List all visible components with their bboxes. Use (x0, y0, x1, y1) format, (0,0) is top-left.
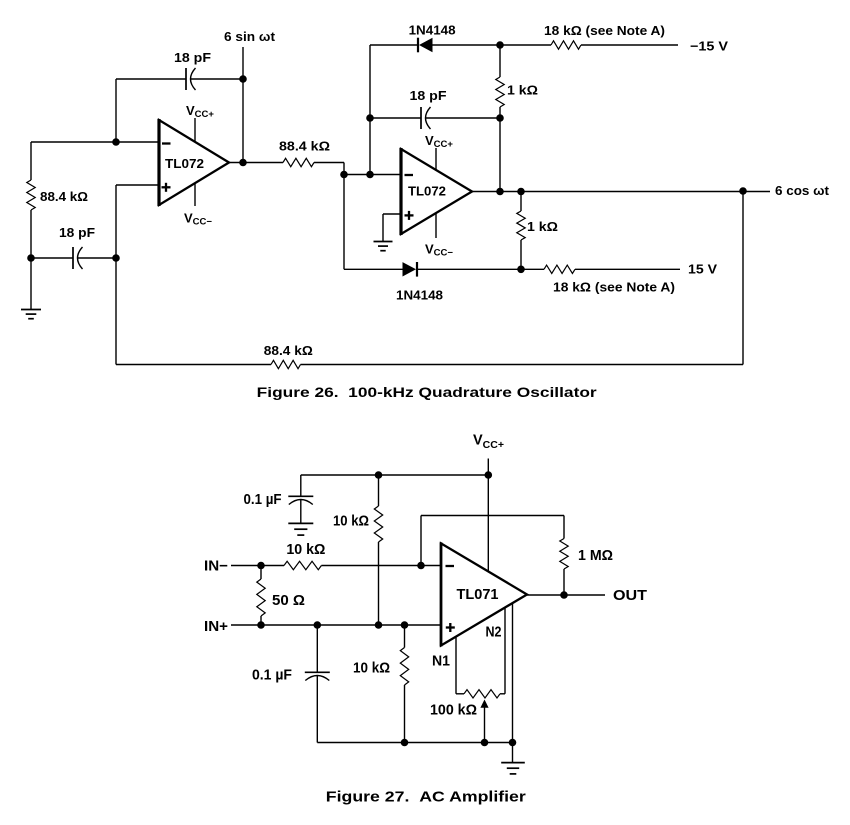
wire: ground lead (30, 258, 32, 310)
wire: noninverting input vertical (115, 185, 117, 365)
wire: R5 lower lead (520, 240, 522, 269)
svg-text:15 V: 15 V (688, 262, 717, 277)
label R8 10 kOhm (333, 514, 369, 530)
node: U2 inverting junction A (340, 171, 348, 179)
node: rail/ground junction (509, 739, 517, 747)
svg-text:18 pF: 18 pF (174, 50, 211, 65)
wire: R13 top lead (404, 625, 406, 648)
wire: feedback top (421, 515, 564, 517)
wire: R11 top lead (563, 516, 565, 539)
caption Figure 27 (326, 789, 526, 806)
wire: R9 to U3 inverting input (321, 565, 441, 567)
svg-text:−15 V: −15 V (690, 39, 728, 54)
capacitor C4 0.1 uF (288, 496, 313, 504)
resistor R5 1 kOhm (517, 211, 525, 240)
diode D2 1N4148 (403, 262, 418, 277)
wire: N1 pin (455, 637, 457, 694)
resistor R6 18 kOhm (544, 265, 575, 273)
svg-text:6 sin ωt: 6 sin ωt (224, 29, 276, 44)
label IN+ (204, 619, 228, 635)
svg-text:VCC−: VCC− (184, 211, 212, 228)
U1 VCC+ pin (194, 118, 196, 142)
node: rail/R13 junction (401, 739, 409, 747)
wire: R3 to -15 V (581, 44, 678, 46)
wire: C1 to top junction (191, 78, 243, 80)
svg-text:10 kΩ: 10 kΩ (286, 542, 325, 558)
wire: R5 upper lead (520, 192, 522, 212)
wire: U2 plus ground lead (382, 214, 384, 242)
wire: IN+ row (231, 624, 441, 626)
label R2 88.4 kOhm (279, 139, 330, 154)
wire: R4 lower lead (499, 107, 501, 192)
U1 minus sign (162, 142, 171, 144)
wire: R1 bottom lead (30, 210, 32, 258)
wire: R10 top lead (260, 566, 262, 580)
label R10 50 Ohm (272, 593, 305, 609)
label VCC+ supply (473, 433, 504, 452)
node: top row junction (496, 41, 504, 49)
wire: pot right lead (500, 693, 505, 695)
wire: D1 to node (433, 44, 552, 46)
label U2 VCC- (425, 242, 453, 259)
svg-text:18 kΩ (see Note A): 18 kΩ (see Note A) (544, 23, 665, 38)
label U1 VCC+ (186, 103, 214, 120)
label U3 N2 (486, 625, 502, 641)
wire: bottom diode row left (344, 268, 403, 270)
resistor R8 10 kOhm (374, 506, 382, 542)
label R5 1 kOhm (527, 219, 558, 234)
node: cap row left junction (366, 114, 374, 122)
label 6 cos wt (775, 183, 830, 198)
label -15 V (690, 39, 728, 54)
wire: N2 pin (504, 608, 506, 694)
label C4 0.1 uF (244, 492, 282, 508)
node: rail/R8 junction (375, 471, 383, 479)
svg-text:VCC−: VCC− (425, 242, 453, 259)
svg-text:10 kΩ: 10 kΩ (353, 661, 390, 677)
wire: U2 noninverting input (383, 213, 401, 215)
label D1 1N4148 (409, 23, 456, 38)
node: IN+/R8 junction (375, 621, 383, 629)
svg-text:50 Ω: 50 Ω (272, 593, 305, 609)
svg-text:18 pF: 18 pF (59, 225, 95, 240)
wire: top row left segment (370, 44, 418, 46)
ground G1 (21, 310, 41, 319)
node: cap row right junction (496, 114, 504, 122)
node: U1 inverting input junction (112, 138, 120, 146)
wire: R2 to U2 branch (314, 162, 344, 164)
resistor R9 10 kOhm (284, 561, 321, 569)
node: rail/wiper junction (481, 739, 489, 747)
caption Figure 26 (257, 385, 598, 400)
wire: R11 bottom lead (563, 569, 565, 595)
wire: C4 top lead (300, 475, 302, 496)
svg-text:18 pF: 18 pF (410, 88, 447, 103)
resistor R4 1 kOhm (496, 77, 504, 107)
wire: bottom feedback left (116, 364, 271, 366)
wire: U2 inverting input (344, 174, 401, 176)
svg-text:OUT: OUT (613, 588, 647, 604)
wire: bottom rail (317, 742, 512, 744)
wire: feedback up (420, 516, 422, 566)
wire: cap row right segment (426, 117, 500, 119)
wire: IN- lead (231, 565, 284, 567)
svg-text:IN−: IN− (204, 558, 228, 574)
U2 VCC+ pin (435, 148, 437, 171)
diode D1 1N4148 (418, 38, 433, 53)
U3 plus sign (446, 623, 455, 632)
label D2 1N4148 (396, 288, 443, 303)
wire: VCC+ rail (301, 474, 489, 476)
label U2 VCC+ (425, 133, 453, 150)
label R1 88.4 kOhm (40, 189, 88, 204)
wiper arrow (480, 700, 488, 743)
node: 6 cos wt junction (739, 187, 747, 195)
svg-text:TL072: TL072 (165, 156, 204, 171)
U1 plus sign (162, 183, 171, 192)
wire: top feedback left segment (116, 78, 186, 80)
node: output/R11 junction (560, 591, 568, 599)
label R6 18 kOhm (see Note A) (553, 280, 675, 295)
wire: pot left lead (456, 693, 464, 695)
wire: cap row left segment (370, 117, 421, 119)
svg-text:1 kΩ: 1 kΩ (527, 219, 558, 234)
U2 minus sign (405, 174, 414, 176)
label 15 V (688, 262, 717, 277)
label R4 1 kOhm (507, 83, 538, 98)
node: U2 output junction (496, 188, 504, 196)
svg-text:VCC+: VCC+ (186, 103, 214, 120)
capacitor C1 18 pF (186, 68, 196, 90)
node: VCC rail junction (485, 471, 493, 479)
svg-text:1 kΩ: 1 kΩ (507, 83, 538, 98)
wire: C5 bottom lead (316, 676, 318, 743)
svg-text:N2: N2 (486, 625, 502, 641)
resistor R2 88.4 kOhm (283, 158, 314, 166)
wire: R8 bottom lead (378, 542, 380, 625)
wire: C2 left lead (31, 257, 73, 259)
U2 plus sign (405, 211, 414, 220)
label R9 10 kOhm (286, 542, 325, 558)
svg-text:6 cos ωt: 6 cos ωt (775, 183, 830, 198)
label R3 18 kOhm (see Note A) (544, 23, 665, 38)
node: IN+/R12 junction (401, 621, 409, 629)
svg-text:Figure 26. 100-kHz Quadrature: Figure 26. 100-kHz Quadrature Oscillator (257, 385, 598, 400)
wire: U1 output (229, 162, 283, 164)
resistor R1 88.4 kOhm (27, 180, 35, 210)
wire: R1 top lead (30, 142, 32, 180)
label U3 TL071 (457, 587, 499, 603)
op-amp U3 TL071 (441, 542, 527, 646)
ground G3 (288, 523, 313, 535)
node: R1/C2 junction (27, 254, 35, 262)
wire: branch down to diode row (343, 163, 345, 270)
svg-text:1 MΩ: 1 MΩ (578, 548, 613, 564)
op-amp U2 TL072 (401, 148, 472, 235)
label C3 18 pF (410, 88, 447, 103)
svg-text:88.4 kΩ: 88.4 kΩ (279, 139, 330, 154)
svg-text:TL071: TL071 (457, 587, 499, 603)
wire: left vertical to diode/cap row (369, 45, 371, 175)
node: U2 inverting junction B (366, 171, 374, 179)
wire: R4 upper lead (499, 45, 501, 77)
svg-text:10 kΩ: 10 kΩ (333, 514, 369, 530)
wire: U3 output (527, 594, 605, 596)
svg-text:TL072: TL072 (408, 184, 446, 199)
label U2 TL072 (408, 184, 446, 199)
wire: R13 bottom lead (404, 685, 406, 743)
wire: inverting input (31, 141, 159, 143)
svg-text:88.4 kΩ: 88.4 kΩ (264, 343, 313, 358)
label R13 10 kOhm (353, 661, 390, 677)
resistor R13 10 kOhm (400, 648, 408, 686)
node: IN+/C5 junction (314, 621, 322, 629)
label IN- (204, 558, 228, 574)
svg-text:Figure 27. AC Amplifier: Figure 27. AC Amplifier (326, 789, 526, 806)
svg-text:VCC+: VCC+ (425, 133, 453, 150)
node: C2/feedback junction (112, 254, 120, 262)
capacitor C2 18 pF (73, 247, 83, 269)
node: R5 top junction (517, 188, 525, 196)
wire: ground lead (512, 743, 514, 763)
node: U1 output (239, 159, 247, 167)
label U1 VCC- (184, 211, 212, 228)
svg-text:0.1 µF: 0.1 µF (252, 668, 292, 684)
U1 VCC- pin (194, 183, 196, 206)
potentiometer R12 100 kOhm (464, 690, 500, 698)
wire: R6 to 15 V (575, 268, 680, 270)
wire: VCC- pin to rail (512, 603, 514, 743)
label C1 18 pF (174, 50, 211, 65)
resistor R7 88.4 kOhm (271, 360, 301, 368)
ground G4 (501, 763, 525, 774)
wire: U1 noninverting input (116, 184, 159, 186)
label U3 N1 (432, 654, 450, 670)
wire: R8 top lead (378, 475, 380, 506)
wire: D2 to node (417, 268, 544, 270)
svg-text:88.4 kΩ: 88.4 kΩ (40, 189, 88, 204)
node: IN-/R10 junction (257, 562, 265, 570)
node: top junction (239, 75, 247, 83)
node: IN+/R10 junction (257, 621, 265, 629)
wire: C2 right lead (78, 257, 116, 259)
label C2 18 pF (59, 225, 95, 240)
label R7 88.4 kOhm (264, 343, 313, 358)
resistor R3 18 kOhm (551, 41, 581, 49)
U3 minus sign (446, 565, 455, 567)
node: inverting feedback junction (417, 562, 425, 570)
ground G2 (374, 242, 393, 251)
svg-text:VCC+: VCC+ (473, 433, 504, 452)
wire: 6 sin wt node down to U1 output (242, 47, 244, 163)
capacitor C3 18 pF (421, 107, 431, 129)
resistor R11 1 MOhm (560, 539, 568, 570)
svg-text:1N4148: 1N4148 (396, 288, 443, 303)
wire: bottom feedback right (301, 364, 744, 366)
svg-text:N1: N1 (432, 654, 450, 670)
wire: U2 output row (472, 191, 770, 193)
wire: C5 top lead (316, 625, 318, 672)
svg-text:1N4148: 1N4148 (409, 23, 456, 38)
svg-text:IN+: IN+ (204, 619, 228, 635)
node: bottom row junction (517, 266, 525, 274)
label U1 TL072 (165, 156, 204, 171)
wire: C4 bottom lead (300, 500, 302, 524)
op-amp U1 TL072 (159, 119, 229, 206)
label R12 100 kOhm (430, 703, 477, 719)
label 6 sin wt (224, 29, 276, 44)
svg-text:18 kΩ (see Note A): 18 kΩ (see Note A) (553, 280, 675, 295)
wire: down to inverting input (115, 79, 117, 142)
label OUT (613, 588, 647, 604)
resistor R10 50 Ohm (257, 579, 265, 616)
U2 VCC- pin (435, 213, 437, 238)
label C5 0.1 uF (252, 668, 292, 684)
wire: R10 bottom lead (260, 616, 262, 625)
wire: right vertical feedback (742, 191, 744, 365)
svg-text:100 kΩ: 100 kΩ (430, 703, 477, 719)
wire: VCC+ vertical to U3 (487, 459, 489, 572)
svg-text:0.1 µF: 0.1 µF (244, 492, 282, 508)
capacitor C5 0.1 uF (305, 672, 330, 680)
label R11 1 MOhm (578, 548, 613, 564)
